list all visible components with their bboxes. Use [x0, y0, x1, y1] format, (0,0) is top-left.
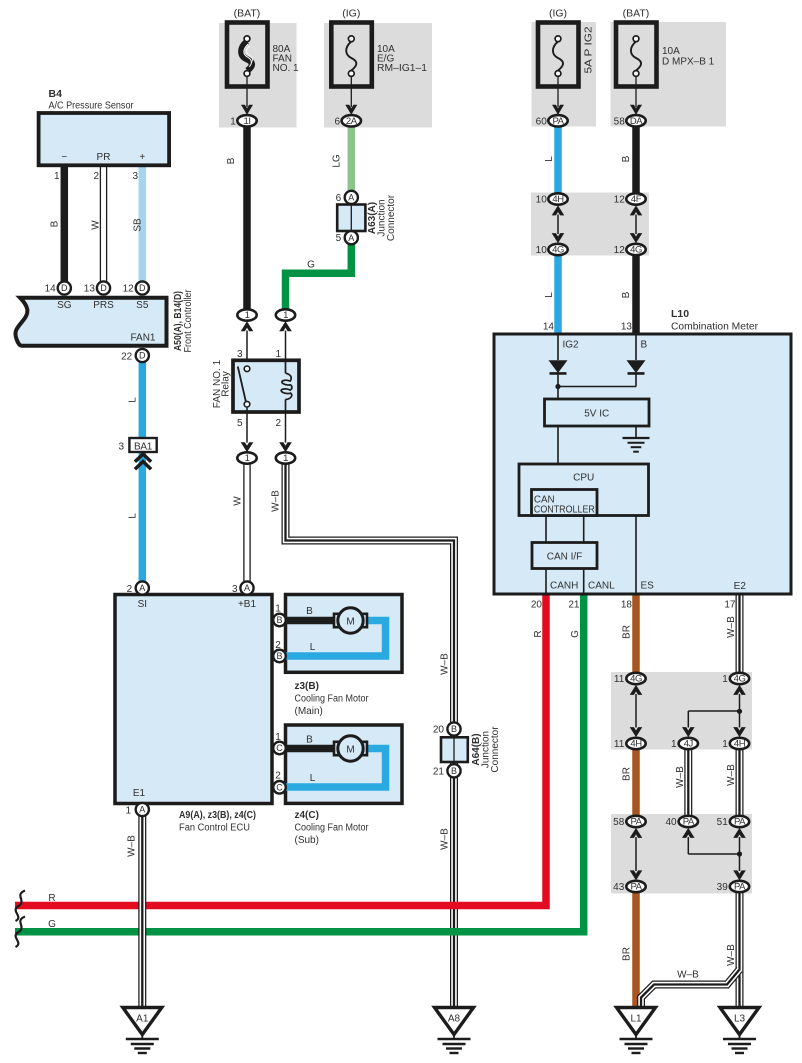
connector circle A pin 3 (+B1) — [240, 581, 253, 594]
svg-text:W–B: W–B — [440, 828, 451, 850]
wire B from fuse D MPX-B 1 to connector 4F — [632, 124, 640, 194]
svg-text:W: W — [233, 496, 244, 506]
svg-text:1: 1 — [283, 310, 288, 321]
diode at B input — [635, 334, 637, 360]
svg-text:4H: 4H — [734, 739, 746, 750]
connector oval 1 (relay pin 3 top) — [237, 309, 256, 320]
svg-text:40: 40 — [665, 817, 677, 828]
svg-text:43: 43 — [613, 882, 625, 893]
svg-text:11: 11 — [614, 674, 625, 685]
connector circle B pin 21 (A64) — [447, 764, 460, 777]
svg-text:Cooling Fan Motor: Cooling Fan Motor — [295, 823, 370, 834]
svg-text:20: 20 — [531, 600, 543, 611]
connector oval PA pin 51 — [730, 816, 749, 827]
svg-text:3: 3 — [132, 171, 138, 182]
svg-text:PA: PA — [552, 116, 564, 127]
svg-text:Relay: Relay — [221, 371, 232, 397]
wire BR from combination meter ES pin 18 to connector 4G — [632, 593, 640, 674]
svg-text:4G: 4G — [734, 674, 746, 685]
svg-text:CANH: CANH — [550, 581, 578, 592]
svg-text:1: 1 — [54, 171, 60, 182]
connector circle A pin 2 (SI) — [136, 581, 149, 594]
svg-text:BR: BR — [622, 947, 633, 961]
svg-text:Cooling Fan Motor: Cooling Fan Motor — [295, 694, 370, 705]
wire W-B from connector 4H to connector PA 51 — [736, 749, 744, 817]
svg-text:(BAT): (BAT) — [623, 8, 650, 20]
svg-text:A: A — [348, 233, 354, 243]
connector oval 4G pin 12 — [626, 244, 645, 255]
connector circle D pin 22 (FAN1) — [136, 349, 149, 362]
svg-text:M: M — [346, 744, 354, 755]
svg-text:(IG): (IG) — [342, 8, 360, 20]
connector circle A pin 1 (E1) — [136, 803, 149, 816]
svg-text:Front Controller: Front Controller — [183, 289, 194, 353]
combination meter L10 box — [494, 334, 791, 594]
svg-text:1I: 1I — [243, 116, 250, 127]
svg-text:D: D — [139, 351, 146, 361]
svg-text:21: 21 — [433, 766, 445, 777]
svg-text:W–B: W–B — [271, 490, 282, 512]
svg-text:W–B: W–B — [675, 766, 686, 788]
fuse block background (IG 10A E/G) — [324, 23, 432, 128]
svg-text:60: 60 — [536, 116, 548, 127]
svg-text:4G: 4G — [630, 245, 642, 256]
svg-text:1: 1 — [283, 453, 288, 464]
wire W from relay pin 5 to fan control ECU +B1 — [243, 462, 251, 582]
svg-text:z3(B): z3(B) — [295, 681, 319, 692]
svg-text:6: 6 — [335, 116, 341, 127]
svg-text:CPU: CPU — [573, 473, 594, 484]
front controller A50(A), B14(D) box — [15, 298, 166, 346]
svg-text:14: 14 — [45, 284, 57, 295]
svg-text:1: 1 — [230, 116, 236, 127]
svg-text:W–B: W–B — [440, 653, 451, 675]
svg-text:A: A — [348, 193, 354, 203]
svg-text:L: L — [310, 642, 316, 653]
svg-text:B: B — [306, 735, 313, 746]
svg-text:L: L — [544, 292, 555, 298]
fuse 5A P/IG2 (IG) — [538, 23, 579, 87]
connector oval 4G pin 11 — [626, 673, 645, 684]
CAN I/F box — [532, 543, 597, 569]
connector oval DA pin 58 — [626, 115, 645, 126]
svg-text:RM–IG1–1: RM–IG1–1 — [377, 63, 427, 74]
svg-text:z4(C): z4(C) — [295, 810, 319, 821]
svg-text:D MPX–B 1: D MPX–B 1 — [662, 57, 715, 68]
connector oval 1I pin 1 — [237, 115, 256, 126]
svg-text:NO. 1: NO. 1 — [273, 63, 300, 74]
svg-text:E2: E2 — [734, 581, 747, 592]
svg-text:11: 11 — [614, 739, 625, 750]
internal ground (meter) — [635, 426, 637, 438]
CAN CONTROLLER box — [532, 490, 598, 516]
fuse block background (IG 5A P/IG2) — [532, 22, 597, 127]
svg-text:PA: PA — [630, 817, 642, 828]
svg-text:A: A — [139, 805, 145, 815]
connector BA1 pin 3 — [129, 438, 156, 452]
wire W-B from relay pin 2 through junction connector A64 to ground A8 — [286, 462, 455, 1006]
connector oval 4G pin 1 (right) — [730, 673, 749, 684]
connector oval 4H pin 1 (right) — [730, 738, 749, 749]
junction connector A64(B) — [441, 737, 468, 762]
svg-text:PA: PA — [630, 882, 642, 893]
connector oval 2A pin 6 — [342, 115, 361, 126]
svg-text:1: 1 — [245, 453, 250, 464]
svg-text:2: 2 — [275, 771, 281, 782]
svg-text:B: B — [50, 220, 61, 227]
svg-text:G: G — [570, 630, 581, 638]
svg-text:−: − — [61, 152, 67, 163]
svg-text:PA: PA — [734, 817, 746, 828]
wire W-B from fan control ECU E1 to ground A1 — [138, 813, 146, 1006]
svg-text:B: B — [226, 157, 237, 164]
ground A8 — [435, 1008, 474, 1035]
connector oval 4J pin 1 — [679, 738, 698, 749]
motor z4 wire B — [286, 745, 334, 753]
svg-text:2A: 2A — [346, 116, 358, 127]
svg-text:BA1: BA1 — [134, 442, 153, 453]
wire SB from A/C pressure sensor pin 3 — [139, 163, 147, 282]
relay top mating arrows and leads — [241, 321, 254, 331]
svg-text:22: 22 — [121, 352, 133, 363]
svg-text:D: D — [100, 283, 107, 293]
mating arrows PA to PA (right) with branch to pin 40 — [733, 828, 746, 838]
wire BR from connector 4H to connector PA 58 — [632, 749, 640, 817]
wire G from combination meter CANL pin 21 to left edge — [15, 593, 584, 932]
svg-text:L1: L1 — [630, 1014, 642, 1025]
connector oval PA pin 60 — [548, 115, 567, 126]
svg-text:R: R — [533, 630, 544, 637]
connector circle B pin 20 (A64) — [447, 722, 460, 735]
svg-text:1: 1 — [275, 604, 281, 615]
svg-text:SI: SI — [138, 599, 147, 610]
svg-text:5A P IG2: 5A P IG2 — [584, 26, 595, 74]
svg-text:1: 1 — [671, 739, 677, 750]
svg-text:SG: SG — [57, 300, 72, 311]
connector circle D pin 13 (PRS) — [97, 281, 110, 294]
svg-text:G: G — [307, 260, 315, 271]
relay FAN NO. 1 box — [233, 360, 299, 412]
connector circle D pin 12 (S5) — [136, 281, 149, 294]
svg-text:4H: 4H — [630, 739, 642, 750]
svg-text:(Sub): (Sub) — [295, 835, 319, 846]
lines CAN I/F to CANH CANL terminals — [545, 569, 547, 594]
svg-text:1: 1 — [722, 674, 728, 685]
svg-text:1: 1 — [275, 349, 281, 360]
fuse 10A D MPX-B 1 (BAT) — [616, 23, 657, 87]
lines CAN controller to CAN I/F — [545, 516, 547, 543]
svg-text:CAN I/F: CAN I/F — [547, 552, 583, 563]
connector oval 4H pin 10 — [548, 193, 567, 204]
svg-text:Fan Control ECU: Fan Control ECU — [179, 823, 250, 834]
svg-text:C: C — [276, 783, 283, 793]
motor z3 wire L loop — [286, 621, 386, 657]
svg-text:12: 12 — [614, 245, 626, 256]
svg-text:17: 17 — [724, 600, 736, 611]
connector circle B pin 1 (z3) — [273, 614, 286, 627]
CPU box — [519, 464, 649, 516]
svg-text:A8: A8 — [448, 1014, 461, 1025]
svg-text:S5: S5 — [136, 300, 149, 311]
svg-text:W–B: W–B — [127, 835, 138, 857]
svg-text:10: 10 — [536, 245, 548, 256]
connector circle C pin 2 (z4) — [273, 781, 286, 794]
svg-text:G: G — [48, 919, 56, 930]
connector oval 1 (relay pin 2 bottom) — [276, 452, 295, 463]
connector oval 4G pin 10 — [548, 244, 567, 255]
mating arrows PA to PA (left) — [630, 828, 643, 838]
svg-text:Connector: Connector — [490, 726, 501, 773]
svg-text:E1: E1 — [133, 788, 146, 799]
fuse block background (BAT 80A) — [219, 23, 297, 128]
svg-text:PA: PA — [734, 882, 746, 893]
svg-text:12: 12 — [123, 284, 135, 295]
motor z4 wire L loop — [286, 749, 386, 788]
wire BR from connector PA 43 to ground L1 — [632, 892, 640, 1007]
svg-text:B: B — [276, 615, 282, 625]
continuation squiggle (R bus) — [16, 891, 26, 922]
svg-text:B: B — [621, 155, 632, 162]
line CPU to ES terminal — [635, 516, 637, 594]
svg-text:L: L — [544, 156, 555, 162]
svg-text:PA: PA — [683, 817, 695, 828]
junction connector A63(A) — [337, 205, 365, 232]
svg-text:M: M — [346, 616, 354, 627]
wire L from connector 4G to combination meter IG2 pin 14 — [554, 255, 562, 336]
fuse 80A FAN NO. 1 (BAT) — [227, 23, 268, 87]
wire W-B middle branch through 4J and PA connectors — [684, 749, 692, 816]
svg-text:DA: DA — [630, 116, 643, 127]
connector oval 4H pin 11 — [626, 738, 645, 749]
mating arrows 4F to 4G — [630, 205, 643, 215]
svg-text:1: 1 — [722, 739, 728, 750]
svg-text:ES: ES — [641, 581, 655, 592]
5V IC box — [545, 399, 650, 426]
ground A1 — [123, 1008, 162, 1035]
wire B from A/C pressure sensor pin 1 — [61, 163, 69, 282]
wire G from junction connector A63 to relay coil — [286, 242, 352, 310]
connector block background 4H/4F-4G — [531, 193, 649, 256]
wire B from connector 4G to combination meter B pin 13 — [632, 255, 640, 336]
A/C pressure sensor B4 box — [39, 113, 170, 165]
connector oval PA pin 40 — [679, 816, 698, 827]
wire L from fuse P/IG2 to connector 4H — [554, 124, 562, 194]
svg-text:PRS: PRS — [93, 300, 114, 311]
svg-text:CONTROLLER: CONTROLLER — [534, 504, 595, 515]
svg-text:4F: 4F — [631, 194, 642, 205]
svg-text:LG: LG — [332, 154, 343, 168]
junction node dot (diodes) — [555, 384, 560, 389]
svg-text:4H: 4H — [552, 194, 564, 205]
mating arrows 4G to 4H (left) — [630, 685, 643, 695]
svg-text:C: C — [276, 743, 283, 753]
svg-text:IG2: IG2 — [563, 340, 580, 351]
svg-text:4G: 4G — [552, 245, 564, 256]
svg-text:BR: BR — [622, 767, 633, 781]
svg-text:+B1: +B1 — [238, 599, 257, 610]
connector oval PA pin 43 — [626, 881, 645, 892]
svg-text:10: 10 — [536, 195, 548, 206]
wire R from combination meter CANH pin 20 to left edge — [15, 593, 546, 906]
svg-text:10A: 10A — [662, 46, 680, 57]
svg-text:B: B — [451, 766, 457, 776]
svg-text:B: B — [621, 291, 632, 298]
motor z3 M symbol — [338, 608, 363, 633]
svg-text:B4: B4 — [49, 88, 63, 100]
svg-text:3: 3 — [118, 442, 124, 453]
fuse block background (BAT 10A D MPX-B 1) — [611, 22, 727, 127]
svg-text:21: 21 — [568, 600, 580, 611]
mating arrows 4H to 4G — [552, 205, 565, 215]
mating arrows 4G to 4H (right) with branch to 4J — [733, 685, 746, 695]
svg-text:58: 58 — [614, 116, 626, 127]
svg-text:2: 2 — [275, 640, 281, 651]
fan control ECU box — [115, 595, 272, 804]
double chevron below BA1 — [135, 454, 151, 462]
wire W-B from combination meter E2 pin 17 to connector 4G — [736, 593, 744, 674]
svg-text:2: 2 — [93, 171, 99, 182]
svg-text:4J: 4J — [684, 739, 694, 750]
svg-text:L: L — [128, 513, 139, 519]
wire LG from fuse E/G RM-IG1-1 to junction connector A63 — [348, 124, 356, 193]
cooling fan motor z4(C) box — [286, 725, 403, 803]
svg-text:(IG): (IG) — [549, 8, 567, 20]
svg-text:20: 20 — [433, 725, 445, 736]
svg-text:W–B: W–B — [726, 616, 737, 638]
ground L1 — [617, 1008, 656, 1035]
svg-text:B: B — [306, 606, 313, 617]
connector block background 4G-4H/4J — [611, 672, 752, 750]
connector circle D pin 14 (SG) — [58, 281, 71, 294]
svg-text:A9(A), z3(B), z4(C): A9(A), z3(B), z4(C) — [179, 810, 256, 821]
continuation squiggle (G bus) — [16, 917, 26, 948]
relay bottom leads and arrows — [246, 407, 248, 443]
svg-text:W–B: W–B — [726, 944, 737, 966]
connector oval PA pin 58 — [626, 816, 645, 827]
svg-text:L3: L3 — [734, 1014, 746, 1025]
svg-text:12: 12 — [614, 195, 626, 206]
relay switch contacts — [244, 366, 250, 372]
svg-text:3: 3 — [237, 349, 243, 360]
wire W-B branch from L3 wire to ground L1 — [641, 970, 740, 1007]
svg-text:R: R — [48, 893, 55, 904]
svg-text:Combination Meter: Combination Meter — [671, 322, 759, 333]
connector circle B pin 2 (z3) — [273, 650, 286, 663]
svg-text:FAN1: FAN1 — [130, 333, 155, 344]
svg-text:SB: SB — [133, 218, 144, 232]
svg-text:B: B — [276, 651, 282, 661]
motor z3 wire B — [286, 617, 334, 625]
connector oval 4F pin 12 — [626, 193, 645, 204]
svg-text:5: 5 — [336, 233, 342, 244]
svg-text:18: 18 — [621, 600, 633, 611]
junction node dot (PA branch) — [737, 851, 742, 856]
svg-text:L: L — [128, 397, 139, 403]
cooling fan motor z3(B) box — [286, 595, 403, 673]
svg-text:BR: BR — [622, 625, 633, 639]
svg-text:B: B — [641, 340, 648, 351]
svg-text:L: L — [310, 773, 316, 784]
svg-text:+: + — [139, 152, 145, 163]
svg-text:13: 13 — [84, 284, 96, 295]
svg-text:W–B: W–B — [677, 970, 699, 981]
svg-text:5: 5 — [237, 418, 243, 429]
svg-text:A1: A1 — [136, 1014, 149, 1025]
svg-text:58: 58 — [613, 817, 625, 828]
svg-text:4G: 4G — [630, 674, 642, 685]
diode at IG2 input — [557, 334, 559, 360]
svg-text:39: 39 — [717, 882, 729, 893]
relay coil — [285, 360, 287, 373]
wire B from fuse FAN NO. 1 to relay — [243, 124, 251, 310]
connector circle A pin 6 (A63) — [345, 191, 358, 204]
svg-text:B: B — [451, 724, 457, 734]
svg-text:W: W — [91, 220, 102, 230]
svg-text:5V IC: 5V IC — [584, 409, 609, 420]
connector circle C pin 1 (z4) — [273, 742, 286, 755]
svg-text:1: 1 — [125, 806, 131, 817]
connector oval PA pin 39 — [730, 881, 749, 892]
svg-text:6: 6 — [336, 193, 342, 204]
ground L3 — [720, 1008, 759, 1035]
connector block background PA-PA — [611, 814, 752, 894]
svg-text:A: A — [244, 583, 250, 593]
motor z4 M symbol — [338, 736, 363, 761]
svg-text:Connector: Connector — [386, 194, 397, 241]
connector oval 1 (relay pin 1 top) — [276, 309, 295, 320]
svg-text:L10: L10 — [671, 308, 689, 320]
svg-text:D: D — [139, 283, 146, 293]
svg-text:13: 13 — [621, 322, 633, 333]
wire L from front controller FAN1 pin 22 to fan control ECU SI — [139, 352, 147, 583]
svg-text:PR: PR — [97, 152, 111, 163]
svg-text:A/C Pressure Sensor: A/C Pressure Sensor — [49, 100, 135, 111]
svg-text:W–B: W–B — [726, 764, 737, 786]
svg-text:51: 51 — [717, 817, 729, 828]
svg-text:2: 2 — [275, 418, 281, 429]
connector circle A pin 5 (A63) — [345, 231, 358, 244]
svg-text:1: 1 — [275, 732, 281, 743]
svg-text:2: 2 — [127, 584, 133, 595]
wire W from A/C pressure sensor pin 2 — [100, 163, 108, 282]
junction node dot (4G branch) — [737, 709, 742, 714]
svg-text:A: A — [139, 583, 145, 593]
connector oval 1 (relay pin 5 bottom) — [237, 452, 256, 463]
svg-text:CANL: CANL — [588, 581, 615, 592]
svg-text:(Main): (Main) — [295, 706, 323, 717]
svg-text:1: 1 — [245, 310, 250, 321]
svg-text:D: D — [61, 283, 68, 293]
svg-text:14: 14 — [543, 322, 555, 333]
wire W-B from connector PA 39 to ground L3 — [736, 892, 744, 1007]
svg-text:(BAT): (BAT) — [234, 8, 261, 20]
svg-text:3: 3 — [232, 584, 238, 595]
fuse 10A E/G RM-IG1-1 (IG) — [331, 23, 372, 87]
